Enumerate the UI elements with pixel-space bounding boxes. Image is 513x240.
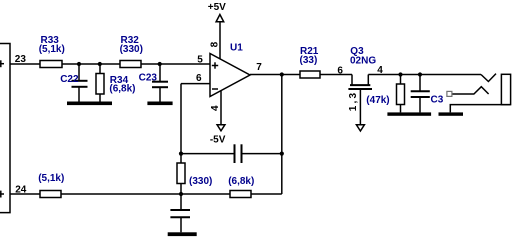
jack tip contact (481, 74, 496, 82)
svg-text:02NG: 02NG (350, 55, 376, 66)
svg-text:6: 6 (196, 73, 202, 84)
ground bar under C23 (147, 102, 172, 106)
svg-text:5: 5 (197, 55, 203, 66)
wire 6,8k to feedback vertical (251, 193, 282, 195)
transistor Q3 (348, 75, 372, 125)
jack body rectangle (501, 74, 510, 104)
wire R21 to Q3 (320, 74, 352, 76)
+5V arrow (216, 15, 224, 22)
svg-text:(330): (330) (189, 176, 212, 187)
+5V power wire pin 8 (219, 22, 221, 59)
wire pin23 to R33 (10, 63, 40, 65)
node A (179, 192, 183, 196)
wire R33 to R32 (62, 63, 120, 65)
wire pin24 to 5,1k resistor (10, 193, 40, 195)
Q3 gate arrow (down) (356, 125, 364, 131)
resistor (5,1k) body bottom (40, 191, 61, 198)
node C23 (158, 62, 162, 66)
feedback mid wire left (181, 153, 235, 155)
ground bar jack sleeve (439, 112, 464, 115)
op-amp U1 triangle (210, 54, 250, 97)
svg-text:C3: C3 (431, 94, 444, 105)
feedback capacitor plates (235, 144, 242, 163)
svg-text:7: 7 (256, 62, 262, 73)
node feedback cap right (280, 152, 284, 156)
svg-text:C23: C23 (139, 73, 158, 84)
wire pin6 vertical down to R330 (180, 84, 182, 163)
resistor (330) vertical body (177, 163, 185, 184)
wire Q3 to 47k node and jack (368, 74, 481, 76)
connector plus mark pin 24 (0, 191, 4, 198)
feedback vertical wire (281, 75, 283, 195)
resistor R33 body (40, 61, 62, 68)
svg-text:(5,1k): (5,1k) (39, 44, 65, 55)
svg-text:(6,8k): (6,8k) (228, 176, 254, 187)
svg-text:4: 4 (377, 65, 383, 76)
svg-text:(330): (330) (120, 44, 143, 55)
resistor R21 body (300, 71, 320, 78)
jack ring contact (452, 87, 489, 94)
node C3 (418, 72, 422, 76)
connector J (left edge, partially cut) (0, 44, 10, 213)
svg-text:U1: U1 (230, 43, 243, 54)
resistor (6,8k) body bottom (230, 191, 251, 198)
op-amp plus input mark (212, 62, 218, 68)
capacitor C23 (152, 64, 168, 102)
output wire pin7 (250, 74, 300, 76)
svg-text:8: 8 (210, 41, 221, 47)
-5V arrow (217, 125, 225, 131)
resistor (47k) vertical (397, 75, 405, 113)
svg-text:-5V: -5V (210, 135, 226, 146)
jack ring terminal square (447, 91, 452, 96)
svg-text:4: 4 (210, 105, 221, 111)
svg-text:(6,8k): (6,8k) (109, 84, 135, 95)
ground bar below node A cap (168, 232, 197, 236)
svg-text:24: 24 (15, 184, 27, 195)
wire R32 to opamp pin5 (141, 63, 210, 65)
feedback mid wire right (242, 153, 282, 155)
resistor R32 body (120, 61, 141, 68)
svg-text:23: 23 (15, 54, 27, 65)
svg-text:(5,1k): (5,1k) (38, 173, 64, 184)
node output pin7 (280, 72, 284, 76)
connector plus mark pin 23 (0, 60, 4, 67)
jack sleeve line (450, 105, 510, 113)
resistor R34 (96, 64, 104, 102)
op-amp minus input mark (212, 88, 218, 90)
svg-text:+5V: +5V (208, 2, 226, 13)
node feedback cap left (179, 152, 183, 156)
capacitor C3 (411, 75, 430, 113)
wire 5,1k to node A (61, 193, 230, 195)
ground bar under C22/R34 (67, 102, 112, 106)
node R33/C22 (77, 62, 81, 66)
wire R330 to node A (180, 184, 182, 195)
svg-text:(47k): (47k) (366, 95, 389, 106)
wire pin6 horizontal (181, 83, 210, 85)
ground bar under 47k/C3 (387, 112, 431, 115)
capacitor C22 (72, 64, 88, 102)
svg-text:(33): (33) (300, 55, 318, 66)
capacitor below node A (170, 194, 190, 232)
svg-text:1,3: 1,3 (348, 91, 359, 112)
node 47k (398, 72, 402, 76)
svg-text:6: 6 (337, 66, 343, 77)
svg-text:C22: C22 (60, 74, 79, 85)
-5V power wire pin 4 (220, 91, 222, 125)
node R34 (98, 62, 102, 66)
